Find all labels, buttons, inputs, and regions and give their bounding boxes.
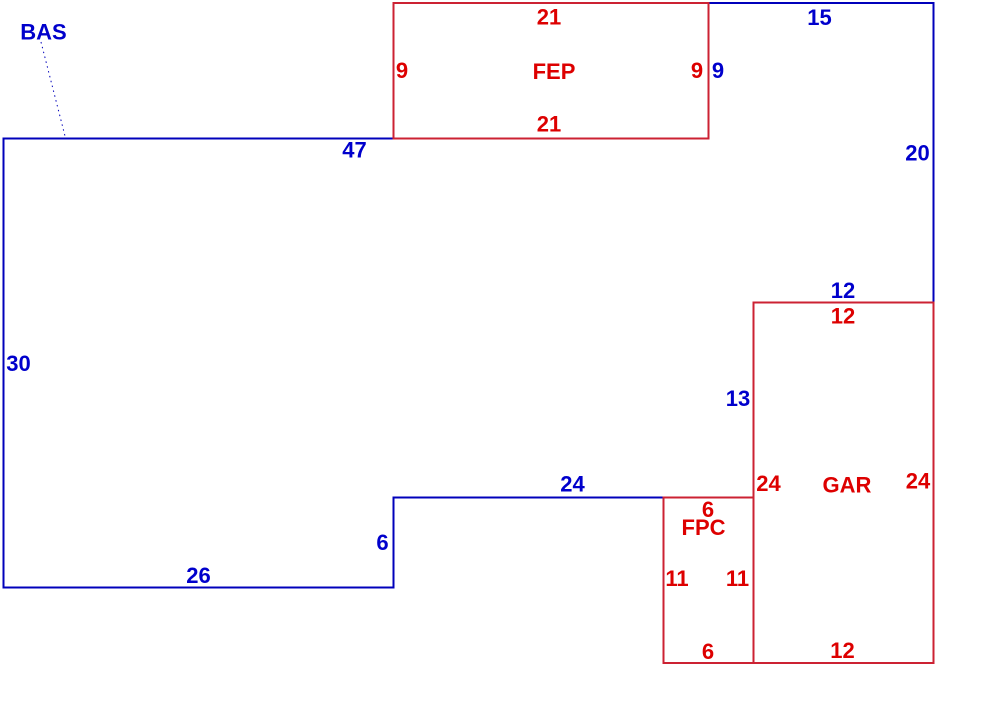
svg-text:47: 47 — [342, 138, 366, 163]
svg-text:24: 24 — [560, 472, 585, 497]
svg-text:21: 21 — [537, 112, 561, 137]
svg-text:11: 11 — [665, 566, 688, 591]
svg-text:12: 12 — [830, 638, 854, 663]
leader line from BAS label — [41, 42, 65, 136]
svg-text:FPC: FPC — [682, 515, 726, 540]
svg-text:26: 26 — [186, 563, 210, 588]
svg-text:12: 12 — [831, 278, 855, 303]
svg-text:6: 6 — [376, 530, 388, 555]
svg-text:20: 20 — [905, 141, 929, 166]
svg-text:30: 30 — [6, 351, 30, 376]
svg-text:FEP: FEP — [533, 59, 576, 84]
area FPC outline — [664, 498, 754, 664]
svg-text:21: 21 — [537, 5, 561, 30]
svg-text:24: 24 — [756, 471, 781, 496]
area GAR outline — [754, 303, 934, 664]
svg-text:13: 13 — [726, 386, 750, 411]
area BAS outline — [4, 3, 934, 588]
svg-text:12: 12 — [831, 304, 855, 329]
svg-text:6: 6 — [702, 639, 714, 664]
area FEP outline — [394, 3, 709, 139]
svg-text:9: 9 — [691, 58, 703, 83]
svg-text:11: 11 — [726, 566, 749, 591]
svg-text:9: 9 — [396, 58, 408, 83]
svg-text:BAS: BAS — [20, 20, 66, 45]
svg-text:9: 9 — [712, 58, 724, 83]
svg-text:GAR: GAR — [823, 473, 872, 498]
svg-text:24: 24 — [906, 469, 931, 494]
svg-text:15: 15 — [807, 5, 831, 30]
